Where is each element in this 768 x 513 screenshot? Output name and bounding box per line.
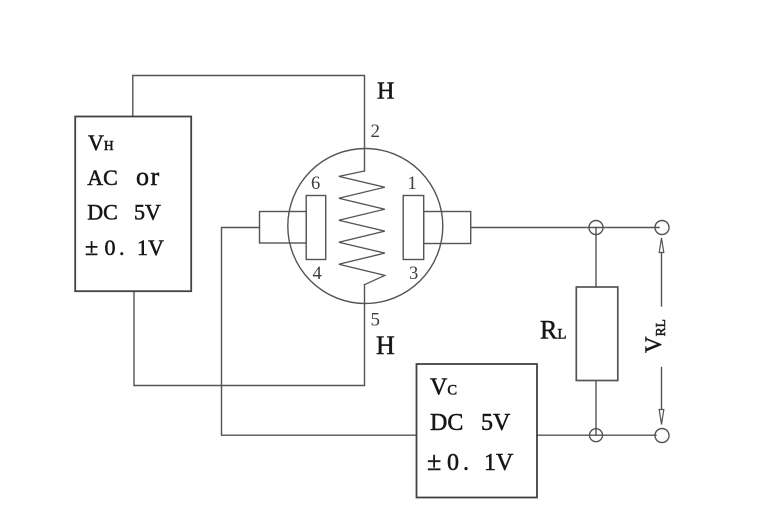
resistor RL (576, 287, 618, 381)
left electrode plate (pins 6-4) (306, 196, 326, 260)
right lead tab (424, 212, 471, 244)
VRL dimension line lower segment (661, 368, 663, 410)
left lead tab (260, 212, 307, 244)
wire: VC right terminal to node B and bottom terminal (537, 434, 656, 436)
svg-text:5: 5 (371, 310, 381, 331)
VRL dimension arrow up (659, 238, 664, 253)
svg-text:4: 4 (313, 264, 322, 284)
node B (junction circle) (590, 429, 603, 442)
svg-text:±0.1V: ±0.1V (427, 447, 514, 476)
wire: VH top to heater pin 2 (H) (133, 76, 365, 172)
svg-text:H: H (377, 79, 394, 105)
svg-text:RL: RL (540, 316, 567, 345)
voltage source box VC (417, 364, 538, 498)
svg-text:H: H (376, 331, 395, 360)
svg-text:±0.1V: ±0.1V (85, 235, 164, 261)
wire: heater pin 5 (H) back to VH bottom (134, 285, 365, 386)
top output terminal (655, 221, 669, 235)
VRL dimension line upper segment (661, 253, 663, 307)
wire: node A down to RL top (595, 228, 597, 288)
wire: right electrode tab to output node and top terminal (471, 227, 659, 229)
sensor envelope U1 (circle) (288, 149, 443, 304)
svg-text:VRL: VRL (641, 319, 668, 353)
bottom output terminal (655, 429, 669, 443)
VRL dimension arrow down (659, 410, 664, 425)
voltage source box VH (75, 117, 191, 292)
node A (junction circle) (589, 221, 603, 235)
svg-text:2: 2 (371, 121, 381, 142)
svg-text:3: 3 (409, 264, 418, 284)
svg-text:ACor: ACor (87, 162, 160, 191)
heater coil (zigzag) (339, 171, 385, 285)
wire: left electrode tab to VC left terminal (222, 228, 417, 436)
wire: RL bottom down to node B (595, 381, 597, 436)
svg-text:DC5V: DC5V (430, 410, 511, 436)
svg-text:6: 6 (311, 174, 320, 194)
svg-text:VC: VC (430, 375, 457, 401)
svg-text:VH: VH (88, 130, 114, 155)
svg-text:1: 1 (408, 174, 417, 194)
right electrode plate (pins 1-3) (403, 196, 424, 260)
svg-text:DC5V: DC5V (87, 200, 161, 225)
